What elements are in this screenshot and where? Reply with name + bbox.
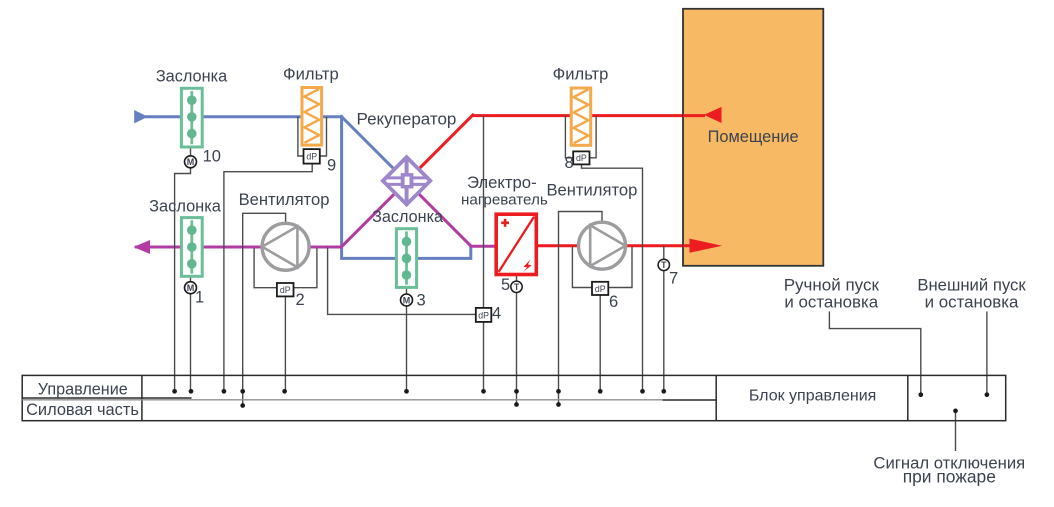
wire: magenta diagonal from recuperator to supply duct	[415, 190, 471, 246]
sensor dP9	[304, 149, 320, 164]
svg-text:T: T	[661, 260, 667, 270]
wire: external start/stop to control unit	[986, 312, 988, 395]
node: fire signal terminal	[953, 409, 958, 414]
svg-text:и остановка: и остановка	[925, 292, 1019, 311]
svg-text:Фильтр: Фильтр	[553, 65, 609, 84]
node: external start terminal	[985, 392, 990, 397]
svg-text:3: 3	[417, 292, 426, 310]
svg-text:Силовая часть: Силовая часть	[26, 401, 139, 419]
electric heater E5	[496, 214, 536, 274]
actuator M3	[401, 294, 413, 306]
wire: red supply duct after heater into room	[535, 244, 692, 247]
damper Z10	[181, 88, 202, 147]
node: magenta exhaust arrow (points left)	[133, 240, 150, 254]
wire: fire shutdown signal	[955, 411, 957, 451]
divider: label cell	[141, 375, 143, 420]
node: dP6 terminal	[598, 389, 603, 394]
wire: T7 to controller	[663, 246, 665, 260]
wire: dP2 to controller	[284, 296, 286, 391]
damper Z1	[181, 218, 202, 277]
recuperator (heat exchanger)	[383, 157, 430, 204]
svg-text:Помещение: Помещение	[708, 128, 799, 146]
fan 2 (exhaust fan)	[262, 223, 309, 270]
svg-text:10: 10	[203, 148, 221, 166]
node: fan2 power terminal (power row)	[240, 403, 245, 408]
fan 6 (supply fan)	[579, 222, 626, 269]
svg-text:1: 1	[195, 288, 204, 306]
filter F9	[302, 88, 322, 146]
node: dP4 terminal	[481, 389, 486, 394]
wire: fan6 power to controller	[559, 212, 603, 405]
controller box outline	[22, 375, 1006, 420]
node: fan6 power terminal (control row)	[556, 389, 561, 394]
svg-text:dP: dP	[595, 284, 606, 294]
svg-text:нагреватель: нагреватель	[461, 191, 548, 208]
node: fan2 power terminal (control row)	[240, 389, 245, 394]
wire: dP8 sensor bracket	[565, 116, 573, 158]
divider: control unit cell right	[907, 375, 909, 420]
svg-text:M: M	[403, 295, 411, 305]
wire: dP4 bracket left (from exhaust duct)	[328, 248, 476, 315]
wire: exhaust diagonal out of recuperator (red)	[415, 114, 474, 173]
node: red supply arrow inside room	[690, 239, 723, 253]
svg-text:при пожаре: при пожаре	[903, 467, 996, 487]
wire: fresh-air inlet duct (blue, top-left)	[145, 115, 342, 118]
node: red arrow at room (exhaust, points left)	[704, 107, 722, 123]
wire: M1 to controller	[190, 277, 192, 282]
node: manual start terminal	[918, 392, 923, 397]
damper Z3 (bypass)	[396, 229, 416, 288]
wire: fan2 dP bracket	[254, 248, 277, 288]
wire: blue bypass duct (down, right, up)	[342, 115, 471, 258]
actuator M10	[185, 156, 197, 168]
node: T5 terminal (control row)	[514, 389, 519, 394]
node: blue inlet arrow	[134, 110, 148, 123]
svg-text:Блок управления: Блок управления	[749, 388, 876, 405]
svg-text:Вентилятор: Вентилятор	[239, 190, 330, 209]
node: dP2 terminal	[282, 389, 287, 394]
actuator M1	[185, 282, 197, 294]
wire: M10 to controller	[190, 147, 192, 156]
svg-text:dP: dP	[306, 152, 317, 162]
svg-text:6: 6	[609, 293, 618, 311]
svg-text:M: M	[187, 283, 195, 293]
wire: magenta diagonal from recuperator to exhaust duct	[341, 190, 398, 247]
wire: M3 to controller	[406, 287, 408, 294]
wire: dP4 to controller	[483, 322, 485, 391]
svg-text:Рекуператор: Рекуператор	[357, 109, 457, 128]
svg-text:T: T	[514, 282, 520, 292]
sensor dP2	[277, 283, 294, 296]
svg-text:Заслонка: Заслонка	[149, 198, 222, 216]
svg-text:Фильтр: Фильтр	[283, 65, 339, 84]
wire: dP6 to controller	[599, 295, 601, 391]
room box	[683, 9, 823, 266]
node: M1 terminal	[189, 389, 194, 394]
sensor dP8	[573, 151, 589, 164]
node: dP8 terminal	[640, 389, 645, 394]
svg-text:Электро-: Электро-	[467, 173, 537, 192]
wire: T5 / heater power to controller	[516, 275, 518, 282]
svg-text:7: 7	[669, 270, 678, 288]
svg-text:Управление: Управление	[38, 381, 128, 399]
wire: fan2 power to controller	[243, 213, 286, 405]
wire: manual start/stop to control unit	[829, 312, 920, 395]
node: T5/heater terminal (power row)	[514, 402, 519, 407]
wire: red exhaust duct stub inside room	[683, 114, 705, 117]
node: red supply arrow (points right)	[690, 239, 723, 253]
svg-text:dP: dP	[478, 310, 489, 320]
svg-text:dP: dP	[576, 153, 587, 163]
node: dP9 terminal	[222, 389, 227, 394]
svg-text:M: M	[187, 157, 195, 167]
wire: red top duct from room to recuperator	[473, 114, 707, 117]
svg-text:2: 2	[296, 291, 305, 309]
wire: fan6 dP bracket	[572, 247, 592, 288]
svg-text:9: 9	[327, 156, 336, 174]
svg-text:4: 4	[492, 305, 501, 323]
svg-text:dP: dP	[280, 285, 291, 295]
wire: dP9 sensor bracket	[298, 117, 304, 156]
node: T7 terminal	[661, 389, 666, 394]
wire: magenta supply duct into heater	[469, 245, 498, 248]
sensor dP6	[592, 282, 608, 295]
node: M3 terminal	[404, 389, 409, 394]
filter F8	[571, 88, 591, 145]
svg-text:Заслонка: Заслонка	[156, 68, 228, 86]
divider: control unit cell left	[715, 375, 717, 420]
wire: dP4 bracket top (from red duct)	[483, 116, 485, 308]
node: red exhaust arrow inside room	[704, 107, 722, 123]
svg-text:8: 8	[565, 154, 574, 172]
wire: dP9 to controller	[224, 163, 312, 391]
divider: control / power rows	[22, 397, 191, 399]
node: M10 terminal	[172, 389, 177, 394]
node: fan6 power terminal (power row)	[556, 402, 561, 407]
wire: red supply duct stub into room	[683, 244, 692, 247]
svg-text:Заслонка: Заслонка	[372, 208, 443, 226]
wire: blue diagonal into recuperator	[341, 116, 399, 174]
sensor T7	[658, 259, 669, 270]
wire: dP8 to controller	[582, 164, 643, 391]
svg-text:5: 5	[501, 276, 510, 294]
sensor dP4	[476, 308, 492, 322]
divider: gray middle segment of row divider	[22, 399, 662, 401]
svg-text:Вентилятор: Вентилятор	[546, 180, 637, 199]
wire: magenta exhaust duct to the left	[135, 246, 343, 249]
svg-text:и остановка: и остановка	[784, 292, 878, 311]
sensor T5	[511, 281, 522, 292]
